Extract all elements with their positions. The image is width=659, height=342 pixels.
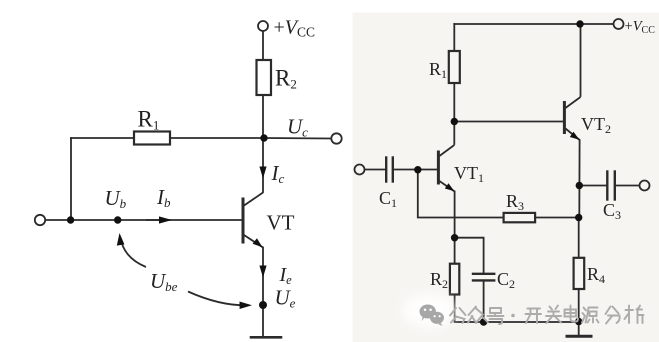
- resistor R2: [257, 60, 272, 95]
- node junction input/feedback: [67, 216, 74, 223]
- transistor VT: [243, 193, 263, 248]
- wire VCC rail top: [454, 23, 613, 25]
- node R1/VT2 base junction: [451, 118, 458, 125]
- wire emitter node to R2: [454, 238, 456, 264]
- terminal output right: [640, 181, 650, 191]
- node VCC rail junction: [576, 20, 583, 27]
- wire VT2 collector vertical: [580, 24, 582, 96]
- wire R2 to collector node: [262, 95, 264, 192]
- node R4 bottom junction: [575, 318, 582, 325]
- wire bottom rail: [484, 321, 579, 323]
- capacitor C3 plates: [606, 172, 608, 200]
- wire R1 to Uc node: [170, 137, 264, 139]
- node junction at Uc: [260, 134, 267, 141]
- node C3 junction: [576, 182, 583, 189]
- arrow Ib: [146, 216, 172, 223]
- 公: [450, 308, 466, 323]
- wire R4 to bottom rail: [578, 289, 580, 322]
- 号: [488, 308, 504, 324]
- wire input to base: [45, 219, 241, 221]
- terminal input left: [35, 215, 45, 225]
- node C2 bottom junction: [480, 318, 487, 325]
- watermark text 公众号 · 开关电源分析 (drawn strokes): [450, 306, 644, 325]
- terminal +VCC left circuit: [258, 21, 268, 31]
- 众: [468, 307, 488, 324]
- wire terminal to C1: [365, 169, 385, 171]
- wire VT1 emitter down: [454, 192, 456, 238]
- node VT1 emitter junction: [451, 234, 458, 241]
- arrow Ic: [259, 167, 266, 179]
- resistor R2 right: [450, 264, 459, 295]
- node Ub: [114, 216, 121, 223]
- ground left circuit: [251, 336, 281, 339]
- node R3/R4 junction: [575, 214, 582, 221]
- 源: [582, 308, 599, 323]
- terminal output Uc: [331, 133, 341, 143]
- wire base node: R1 left segment: [71, 137, 134, 139]
- terminal +VCC right circuit: [614, 19, 624, 29]
- watermark background blob: [402, 294, 456, 328]
- 开: [526, 309, 542, 324]
- wire rail to R1: [453, 24, 455, 51]
- wire C3 to output terminal: [616, 185, 639, 187]
- node Ue: [259, 301, 267, 309]
- 关: [546, 306, 561, 324]
- wire Uc node to output terminal: [264, 137, 331, 140]
- capacitor C1 plates: [385, 158, 387, 182]
- wire C2 to bottom rail: [483, 282, 485, 322]
- resistor R1 right: [449, 51, 460, 83]
- arrow Ie: [259, 266, 266, 278]
- wire C1 to VT1 base node: [394, 169, 418, 171]
- resistor R3: [504, 213, 535, 222]
- transistor VT2: [564, 97, 580, 140]
- wire base node down to R3: [418, 170, 504, 218]
- capacitor C2 plates: [473, 273, 494, 275]
- svg-text:VT: VT: [267, 211, 295, 235]
- wire emitter node to C2: [455, 238, 484, 273]
- capacitor C1 terminal: [355, 165, 365, 175]
- wire R3 node to R4: [578, 218, 580, 258]
- wire VCC to R2: [262, 31, 264, 60]
- background right tint: [353, 13, 659, 342]
- wire R2 to bottom rail: [455, 295, 484, 323]
- resistor R4: [574, 258, 585, 289]
- dot separator: [511, 314, 515, 318]
- wire left vertical feedback: [70, 138, 72, 220]
- transistor VT1: [438, 145, 454, 192]
- wire R1 to base node: [453, 83, 455, 144]
- wire emitter down: [262, 248, 264, 337]
- 分: [606, 307, 620, 324]
- wire C3 branch: [579, 185, 605, 187]
- 电: [565, 306, 579, 322]
- node VT1 base junction: [414, 166, 421, 173]
- arrow Ube to node Ue: [188, 292, 252, 310]
- resistor R1: [134, 132, 170, 145]
- wire R3 to VT2 emitter branch: [535, 217, 579, 219]
- wire VT2 base: [454, 121, 563, 123]
- wire VT1 base: [418, 169, 437, 171]
- wire VT2 emitter vertical: [578, 140, 580, 218]
- arrow Ube to node Ub: [117, 233, 146, 267]
- watermark wechat icon: [420, 305, 445, 327]
- 析: [625, 306, 644, 324]
- ground right circuit: [578, 322, 580, 336]
